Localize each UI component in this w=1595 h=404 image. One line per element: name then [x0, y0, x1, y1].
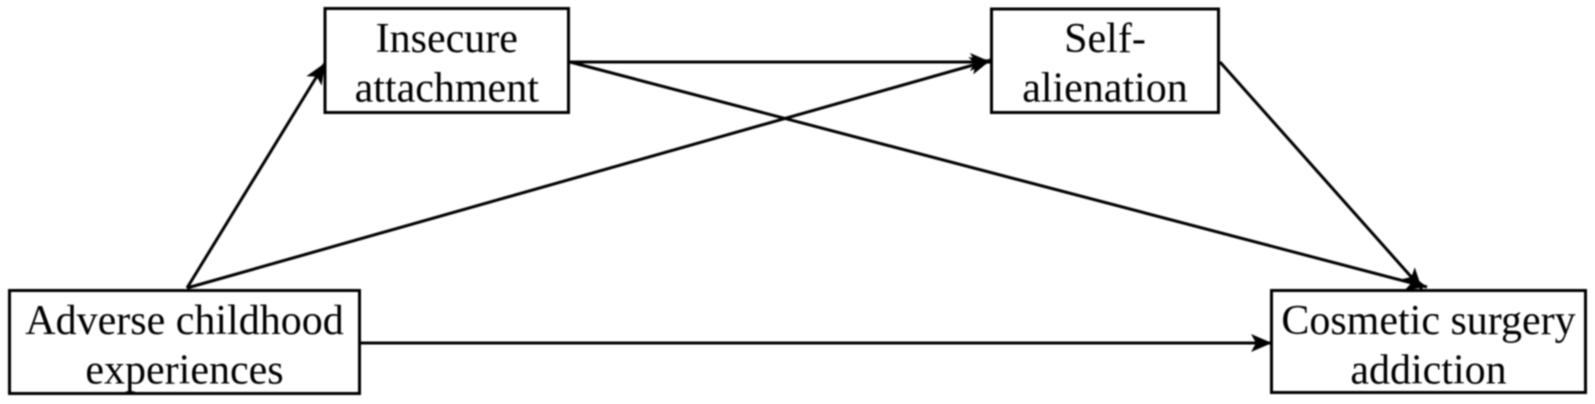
node: Cosmetic surgery addiction box [1272, 291, 1586, 394]
node: Self-alienation box [992, 9, 1219, 113]
wire: arrow from Adverse childhood experiences to Insecure attachment [187, 63, 325, 288]
svg-text:Cosmetic surgery: Cosmetic surgery [1281, 298, 1575, 344]
wire: arrow from Insecure attachment to Self-alienation [570, 61, 991, 64]
wire: arrow from Self-alienation to Cosmetic surgery addiction [1220, 62, 1422, 289]
node: Insecure attachment box [325, 9, 569, 113]
svg-text:experiences: experiences [85, 348, 283, 394]
svg-text:Insecure: Insecure [376, 16, 518, 62]
wire: arrow from Insecure attachment to Cosmetic surgery addiction [570, 62, 1427, 287]
svg-text:alienation: alienation [1022, 66, 1188, 112]
node: Adverse childhood experiences box [10, 291, 360, 394]
svg-text:Adverse childhood: Adverse childhood [25, 298, 343, 344]
svg-text:Self-: Self- [1064, 16, 1146, 62]
svg-text:attachment: attachment [355, 66, 540, 112]
wire: arrow from Adverse childhood experiences to Cosmetic surgery addiction [361, 342, 1272, 345]
svg-text:addiction: addiction [1350, 348, 1506, 394]
wire: arrow from Adverse childhood experiences to Self-alienation [187, 60, 991, 288]
